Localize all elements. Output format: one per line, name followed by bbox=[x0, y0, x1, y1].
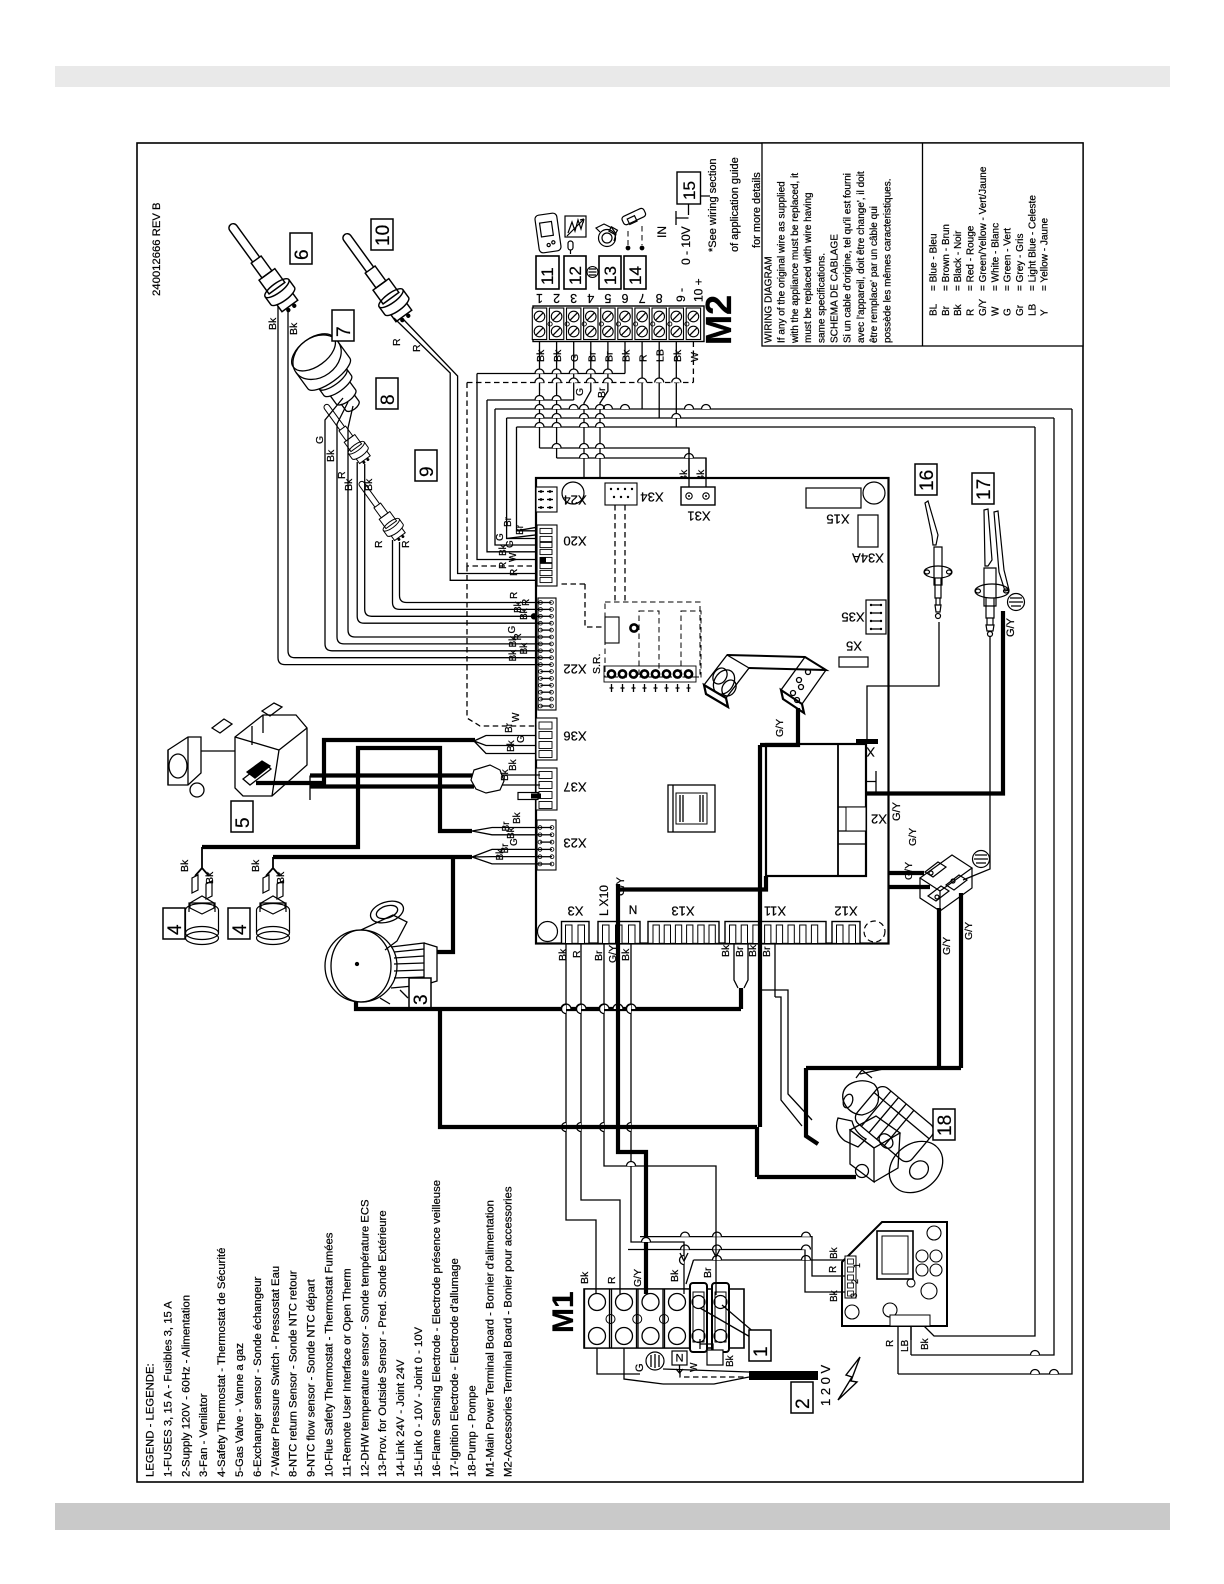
svg-text:Bk: Bk bbox=[250, 859, 262, 872]
box 10 bbox=[371, 219, 393, 250]
box 2 bbox=[791, 1382, 813, 1413]
svg-text:Bk: Bk bbox=[620, 948, 632, 961]
svg-text:18: 18 bbox=[935, 1115, 956, 1136]
svg-text:Bk: Bk bbox=[829, 1289, 840, 1302]
svg-text:1: 1 bbox=[536, 291, 543, 305]
right column wire to ignition board LB bbox=[911, 418, 1054, 1355]
svg-text:17-Ignition Electrode - Electr: 17-Ignition Electrode - Electrode d'allu… bbox=[449, 1258, 461, 1477]
svg-text:Bk: Bk bbox=[720, 944, 732, 957]
sensor 6 wires Bk Bk bbox=[288, 308, 541, 658]
svg-text:= Yellow - Jaune: = Yellow - Jaune bbox=[1040, 217, 1051, 291]
mounting hole top-right bbox=[863, 482, 885, 504]
svg-text:1: 1 bbox=[751, 1346, 772, 1357]
connector X15 bbox=[806, 488, 861, 508]
small relay box bbox=[605, 617, 619, 643]
svg-text:7: 7 bbox=[639, 291, 646, 305]
funnel marks bbox=[680, 1249, 720, 1261]
mounting hole top-left bbox=[562, 482, 584, 504]
svg-text:Bk: Bk bbox=[669, 1269, 681, 1282]
svg-text:Bk: Bk bbox=[325, 449, 337, 462]
svg-text:Bk: Bk bbox=[204, 871, 216, 884]
svg-text:Gr: Gr bbox=[1015, 304, 1026, 316]
svg-text:of application guide: of application guide bbox=[729, 157, 741, 252]
svg-text:= Brown - Brun: = Brown - Brun bbox=[941, 224, 952, 291]
box 4 (first) bbox=[163, 908, 185, 939]
svg-text:5-Gas Valve - Vanne a gaz: 5-Gas Valve - Vanne a gaz bbox=[234, 1343, 246, 1477]
svg-text:4: 4 bbox=[165, 924, 186, 935]
bottom grey bar bbox=[55, 1503, 1170, 1530]
box 4 (second) bbox=[228, 908, 250, 939]
S.R. pin header circles bbox=[604, 666, 696, 682]
svg-text:G/Y: G/Y bbox=[607, 945, 619, 963]
top grey bar bbox=[55, 66, 1170, 87]
board display bbox=[877, 1231, 913, 1279]
M1 earth G + symbol bbox=[597, 1348, 640, 1374]
connector X34A bbox=[858, 515, 878, 547]
svg-text:R: R bbox=[336, 471, 348, 479]
mounting hole bottom-right (dashed) bbox=[864, 921, 885, 942]
sensor 7 wires G Bk R bbox=[325, 398, 541, 651]
bundle line L6 (to right column Bk) bbox=[517, 426, 1036, 428]
svg-text:M1-Main Power Terminal Board -: M1-Main Power Terminal Board - Bornier d… bbox=[485, 1200, 497, 1477]
accessories terminal board M2 bbox=[532, 306, 704, 342]
svg-text:Bk: Bk bbox=[535, 349, 547, 362]
svg-text:Y: Y bbox=[1040, 309, 1051, 316]
svg-text:W: W bbox=[990, 306, 1001, 316]
svg-text:LB: LB bbox=[655, 349, 667, 362]
cluster earth wires down to pump bbox=[937, 908, 941, 1068]
svg-text:G: G bbox=[516, 735, 527, 743]
board buttons bbox=[916, 1250, 928, 1262]
svg-text:R: R bbox=[638, 354, 650, 362]
board pin strip bbox=[845, 1256, 856, 1298]
svg-text:9: 9 bbox=[417, 466, 438, 477]
thick jumpers into cluster bbox=[888, 871, 924, 875]
svg-text:X34: X34 bbox=[640, 490, 663, 505]
X37 blank plug bbox=[518, 793, 538, 800]
svg-text:Bk: Bk bbox=[500, 768, 511, 781]
svg-text:Bk: Bk bbox=[519, 607, 530, 620]
svg-text:G/Y: G/Y bbox=[1005, 617, 1017, 637]
bundle line L4 (to right column R) bbox=[495, 408, 1072, 410]
svg-text:Br: Br bbox=[761, 946, 773, 957]
svg-text:1-FUSES 3, 15 A - Fusibles 3,: 1-FUSES 3, 15 A - Fusibles 3, 15 A bbox=[162, 1301, 174, 1477]
svg-text:X36: X36 bbox=[563, 729, 586, 744]
svg-text:X2: X2 bbox=[871, 812, 887, 827]
svg-text:G/Y: G/Y bbox=[941, 937, 953, 955]
box 9 bbox=[415, 450, 437, 481]
V arrow bbox=[676, 1365, 683, 1373]
svg-text:R: R bbox=[373, 540, 385, 548]
svg-text:= Red - Rouge: = Red - Rouge bbox=[966, 225, 977, 291]
bundle line L2 dashed bbox=[467, 382, 693, 384]
bundle line L5 (to right column LB) bbox=[507, 417, 1054, 419]
svg-text:L X10: L X10 bbox=[597, 885, 611, 916]
box 18 bbox=[933, 1109, 955, 1140]
info box english/french text bbox=[764, 171, 894, 344]
svg-text:S.R.: S.R. bbox=[591, 654, 603, 674]
svg-text:R: R bbox=[498, 562, 509, 569]
box 14 bbox=[624, 256, 646, 289]
svg-text:X13: X13 bbox=[671, 904, 694, 919]
water pressure switch 7 bbox=[284, 326, 375, 425]
X22 black dot pin bbox=[531, 613, 537, 619]
svg-text:X35: X35 bbox=[841, 610, 864, 625]
svg-text:G/Y: G/Y bbox=[891, 801, 903, 821]
svg-text:G/Y: G/Y bbox=[632, 1269, 644, 1287]
svg-text:Br: Br bbox=[515, 524, 526, 535]
svg-text:same specifications.: same specifications. bbox=[816, 253, 827, 343]
svg-text:for more details: for more details bbox=[751, 172, 763, 248]
wiring diagram info box bbox=[762, 143, 1083, 346]
bundle line L3 bbox=[487, 399, 574, 401]
svg-text:8: 8 bbox=[378, 394, 399, 405]
ignition board 1 outline bbox=[842, 1222, 947, 1326]
svg-text:X31: X31 bbox=[687, 509, 710, 524]
Bk box bbox=[707, 1350, 723, 1365]
svg-text:R: R bbox=[400, 540, 412, 548]
svg-text:11: 11 bbox=[538, 267, 557, 285]
svg-text:10: 10 bbox=[373, 225, 394, 246]
NTC return sensor 8 bbox=[317, 399, 374, 467]
svg-text:G/Y: G/Y bbox=[907, 828, 919, 846]
svg-text:Bk: Bk bbox=[506, 739, 517, 752]
box 11 bbox=[536, 256, 559, 289]
svg-text:G/Y: G/Y bbox=[978, 298, 989, 316]
svg-text:0 - 10V: 0 - 10V bbox=[679, 226, 693, 265]
bundle line L8 to X31 bbox=[557, 458, 706, 487]
svg-text:X11: X11 bbox=[764, 904, 786, 919]
svg-text:X34A: X34A bbox=[852, 551, 884, 566]
svg-text:2: 2 bbox=[793, 1398, 814, 1409]
X11 wire pair to fan feed bbox=[734, 943, 748, 988]
room thermostat icon (12) bbox=[565, 216, 586, 254]
svg-text:with the appliance must be rep: with the appliance must be replaced, it bbox=[790, 173, 801, 344]
svg-text:9 -: 9 - bbox=[674, 288, 688, 302]
svg-text:G: G bbox=[574, 388, 586, 396]
svg-text:14: 14 bbox=[626, 266, 645, 285]
electrode 17 wire bbox=[963, 637, 990, 880]
svg-text:N: N bbox=[675, 1351, 683, 1363]
svg-text:3-Fan - Venilator: 3-Fan - Venilator bbox=[198, 1393, 210, 1477]
svg-text:R: R bbox=[606, 1276, 618, 1284]
svg-text:Bk: Bk bbox=[508, 649, 519, 662]
svg-text:4: 4 bbox=[587, 291, 594, 305]
svg-text:X3: X3 bbox=[568, 904, 584, 919]
S.R. jumper circle bbox=[630, 624, 637, 631]
svg-text:= Green - Vert: = Green - Vert bbox=[1003, 228, 1014, 291]
legend text block bbox=[145, 1180, 515, 1477]
svg-text:16-Flame Sensing Electrode - E: 16-Flame Sensing Electrode - Electrode p… bbox=[431, 1180, 443, 1477]
pump 18 bbox=[837, 1068, 953, 1203]
svg-text:13: 13 bbox=[601, 266, 620, 285]
connector X37 bbox=[536, 768, 557, 810]
bundle line L1 bbox=[477, 373, 625, 375]
svg-text:Br: Br bbox=[603, 351, 615, 362]
X11 wire pair to pump bbox=[761, 943, 775, 997]
pump thick feed top bbox=[806, 1068, 961, 1144]
svg-text:R: R bbox=[966, 309, 977, 316]
svg-text:5: 5 bbox=[233, 817, 254, 828]
svg-text:X20: X20 bbox=[563, 534, 586, 549]
svg-text:X24: X24 bbox=[563, 493, 586, 508]
flue safety thermostat 10 bbox=[333, 226, 418, 328]
ignition electrode 17 bbox=[975, 509, 1009, 637]
svg-text:Br: Br bbox=[596, 387, 608, 398]
svg-text:240012666 REV B: 240012666 REV B bbox=[151, 202, 163, 296]
svg-text:Bk: Bk bbox=[512, 811, 523, 824]
svg-text:LB: LB bbox=[900, 1339, 911, 1352]
svg-text:9-NTC flow sensor - Sonde NTC: 9-NTC flow sensor - Sonde NTC départ bbox=[306, 1278, 318, 1477]
flame sensing electrode 16 bbox=[924, 501, 952, 619]
bracket G/Y drop bbox=[758, 745, 762, 1127]
svg-text:*See wiring section: *See wiring section bbox=[707, 158, 719, 252]
drawing border frame bbox=[137, 143, 1083, 1482]
X36 dashed entry W bbox=[467, 566, 536, 726]
svg-text:être remplace' par un câble qu: être remplace' par un câble qui bbox=[869, 206, 880, 343]
connector X20 bbox=[537, 525, 557, 586]
svg-text:3: 3 bbox=[570, 291, 577, 305]
svg-text:1: 1 bbox=[852, 1263, 862, 1268]
connector X3 bbox=[562, 922, 590, 944]
connector X34 bbox=[605, 483, 637, 505]
exchanger sensor 6 bbox=[219, 216, 304, 318]
pump thick feed bottom bbox=[757, 1175, 856, 1179]
safety thermostat 4 (first) bbox=[186, 875, 219, 945]
svg-text:G: G bbox=[634, 1363, 646, 1372]
right column wire to ignition board Bk bbox=[924, 427, 1035, 1336]
svg-text:= Green/Yellow - Vert/Jaune: = Green/Yellow - Vert/Jaune bbox=[978, 166, 989, 291]
connector X36 bbox=[536, 718, 557, 760]
svg-text:G: G bbox=[507, 626, 518, 634]
svg-text:Si un cable d'origine, tel qu': Si un cable d'origine, tel qu'il est fou… bbox=[843, 173, 854, 343]
svg-text:Bk: Bk bbox=[519, 642, 530, 655]
svg-text:LEGEND - LEGENDE:: LEGEND - LEGENDE: bbox=[145, 1363, 157, 1477]
svg-text:7-Water Pressure Switch - Pres: 7-Water Pressure Switch - Pressostat Eau bbox=[270, 1266, 282, 1477]
lightning bolt bbox=[838, 1357, 860, 1400]
svg-text:R: R bbox=[411, 344, 423, 352]
svg-text:12: 12 bbox=[566, 266, 585, 285]
svg-text:Bk: Bk bbox=[552, 349, 564, 362]
svg-text:G: G bbox=[569, 354, 581, 362]
fan 3 bbox=[325, 897, 437, 1004]
svg-text:possède les mêmes caracteristi: possède les mêmes caracteristiques. bbox=[882, 178, 893, 343]
transformer icon bbox=[668, 785, 715, 832]
svg-text:6: 6 bbox=[292, 249, 313, 260]
svg-text:X37: X37 bbox=[563, 780, 586, 795]
svg-text:18-Pump - Pompe: 18-Pump - Pompe bbox=[467, 1385, 479, 1477]
svg-text:Bk: Bk bbox=[508, 635, 519, 648]
svg-text:Bk: Bk bbox=[621, 349, 633, 362]
bracket isometric bbox=[704, 655, 826, 713]
svg-text:Bk: Bk bbox=[672, 349, 684, 362]
bowtie junction bbox=[471, 765, 504, 793]
fuse leaders to box 1 bbox=[700, 1305, 756, 1338]
svg-text:M2-Accessories Terminal Board: M2-Accessories Terminal Board - Bonier p… bbox=[503, 1186, 515, 1477]
svg-text:2: 2 bbox=[553, 291, 560, 305]
svg-text:N: N bbox=[629, 902, 638, 916]
connector X11 bbox=[725, 922, 826, 944]
earth screw symbol at cluster bbox=[973, 851, 990, 868]
box 17 bbox=[972, 473, 994, 504]
X1 pad bbox=[856, 739, 878, 744]
svg-text:R: R bbox=[571, 950, 583, 958]
earth screw icon between 12 and 13 bbox=[587, 267, 598, 278]
svg-text:8-NTC return Sensor - Sonde NT: 8-NTC return Sensor - Sonde NTC retour bbox=[288, 1270, 300, 1477]
tiny pin labels under S.R. bbox=[610, 684, 614, 692]
link 15 leader bbox=[676, 196, 710, 225]
X2 earth strap to ignition electrode bbox=[866, 611, 1003, 794]
remote control icon (11) bbox=[534, 213, 561, 254]
svg-text:G/Y: G/Y bbox=[774, 719, 786, 737]
box 7 bbox=[332, 310, 354, 341]
M1 input wire Bk (N) bbox=[631, 943, 684, 1294]
svg-text:11-Remote User Interface or Op: 11-Remote User Interface or Open Therm bbox=[341, 1268, 353, 1477]
svg-text:W: W bbox=[511, 712, 522, 722]
svg-text:4-Safety Thermostat - Thermost: 4-Safety Thermostat - Thermostat de Sécu… bbox=[216, 1248, 228, 1477]
svg-text:X5: X5 bbox=[846, 639, 862, 654]
connector X22 bbox=[538, 598, 556, 710]
svg-text:Bk: Bk bbox=[495, 848, 506, 861]
outdoor sensor icon (13) bbox=[596, 224, 617, 247]
svg-text:1 2 0 V: 1 2 0 V bbox=[818, 1364, 833, 1406]
svg-text:4: 4 bbox=[230, 924, 251, 935]
svg-text:14-Link 24V - Joint 24V: 14-Link 24V - Joint 24V bbox=[395, 1359, 407, 1477]
main control board PCB bbox=[536, 478, 889, 944]
main power terminal board M1 bbox=[584, 1289, 744, 1348]
thick riser to earth bracket bbox=[755, 1127, 759, 1177]
gas valve 5 bbox=[168, 703, 307, 797]
svg-text:SCHEMA DE CABLAGE: SCHEMA DE CABLAGE bbox=[830, 234, 841, 343]
svg-text:Br: Br bbox=[504, 722, 515, 733]
svg-text:X12: X12 bbox=[834, 904, 857, 919]
svg-text:Bk: Bk bbox=[275, 871, 287, 884]
svg-text:X22: X22 bbox=[563, 662, 586, 677]
M1 input wire R bbox=[581, 943, 620, 1294]
svg-text:10 +: 10 + bbox=[692, 278, 706, 302]
bracket to X1 thick bbox=[760, 708, 798, 745]
svg-text:R: R bbox=[509, 592, 520, 599]
M2 terminal numbers 1-8 bbox=[536, 291, 663, 305]
dashed links from X34 bbox=[615, 505, 625, 602]
svg-text:Br: Br bbox=[941, 305, 952, 316]
mounting hole bottom-left bbox=[538, 922, 558, 942]
svg-text:Bk: Bk bbox=[725, 1354, 736, 1367]
svg-text:2-Supply 120V - 60Hz - Aliment: 2-Supply 120V - 60Hz - Alimentation bbox=[180, 1295, 192, 1477]
svg-text:Br: Br bbox=[734, 946, 746, 957]
connector X10 L-N bbox=[598, 922, 640, 944]
svg-text:12-DHW temperature sensor - So: 12-DHW temperature sensor - Sonde tempér… bbox=[359, 1199, 371, 1477]
svg-text:Bk: Bk bbox=[508, 758, 519, 771]
svg-text:5: 5 bbox=[604, 291, 611, 305]
svg-text:G: G bbox=[495, 533, 506, 541]
connector X12 bbox=[832, 922, 860, 944]
svg-text:Bk: Bk bbox=[506, 826, 517, 839]
right column wire to ignition board R bbox=[898, 409, 1072, 1374]
svg-text:= Light Blue - Celeste: = Light Blue - Celeste bbox=[1027, 195, 1038, 291]
svg-text:10-Flue Safety Thermostat - Th: 10-Flue Safety Thermostat - Thermostat F… bbox=[324, 1232, 336, 1477]
thermostat 1 wires bbox=[0, 0, 1, 1]
svg-text:IN: IN bbox=[655, 226, 669, 238]
svg-text:LB: LB bbox=[1027, 303, 1038, 316]
sensor 9 wires R R bbox=[393, 540, 541, 609]
svg-text:M1: M1 bbox=[547, 1291, 580, 1333]
svg-text:15-Link 0 - 10V - Joint 0 - 10: 15-Link 0 - 10V - Joint 0 - 10V bbox=[413, 1326, 425, 1477]
cord gather triangle bbox=[663, 1369, 749, 1384]
svg-text:Bk: Bk bbox=[953, 303, 964, 316]
svg-text:= Grey - Gris: = Grey - Gris bbox=[1015, 233, 1026, 291]
svg-text:G: G bbox=[1003, 308, 1014, 316]
svg-text:3: 3 bbox=[411, 994, 432, 1005]
svg-text:= Blue - Bleu: = Blue - Bleu bbox=[929, 233, 940, 291]
info box divider bbox=[922, 143, 924, 346]
earth screw symbol at electrode 17 bbox=[1008, 594, 1025, 611]
thermostat 2 wires bbox=[266, 857, 280, 876]
X2 pad bbox=[846, 779, 866, 784]
svg-text:W: W bbox=[508, 552, 519, 562]
svg-text:Bk: Bk bbox=[267, 317, 279, 330]
earth terminal cluster bbox=[920, 855, 972, 911]
M2 wire colour labels bbox=[535, 349, 701, 362]
safety thermostat 4 (second) bbox=[257, 875, 290, 945]
connector X31 bbox=[681, 487, 715, 505]
X37 junction wires bbox=[310, 773, 474, 777]
svg-text:R: R bbox=[885, 1340, 896, 1347]
info box colour code list bbox=[929, 166, 1051, 316]
box 15 bbox=[677, 172, 701, 204]
fuse holder 1 bbox=[690, 1283, 707, 1352]
box 12 bbox=[564, 256, 586, 289]
svg-text:Bk: Bk bbox=[747, 944, 759, 957]
N box bbox=[672, 1351, 687, 1365]
svg-text:Bk: Bk bbox=[920, 1337, 931, 1350]
board output pads bbox=[890, 1315, 930, 1326]
svg-text:17: 17 bbox=[974, 479, 995, 500]
bundle left drops to X20 bbox=[477, 374, 536, 560]
crossing hops lower area bbox=[562, 1005, 632, 1132]
sensor 10 wires R R bbox=[394, 318, 536, 580]
Bk stubs above X31 bbox=[689, 448, 706, 487]
svg-text:If any of the original wire as: If any of the original wire as supplied bbox=[777, 181, 788, 343]
sensor 8 wires Bk Bk bbox=[357, 462, 540, 623]
svg-text:Bk: Bk bbox=[179, 859, 191, 872]
svg-text:Bk: Bk bbox=[288, 322, 300, 335]
svg-text:R: R bbox=[828, 1266, 839, 1273]
svg-text:2: 2 bbox=[850, 1279, 860, 1284]
box 5 bbox=[231, 801, 253, 832]
connector X5 bbox=[839, 657, 868, 667]
M1 input wire G/Y thick bbox=[618, 884, 646, 1294]
svg-text:Bk: Bk bbox=[557, 948, 569, 961]
svg-text:= White - Blanc: = White - Blanc bbox=[990, 223, 1001, 291]
box 16 bbox=[915, 464, 937, 495]
svg-text:R: R bbox=[391, 338, 403, 346]
svg-text:R: R bbox=[509, 569, 520, 576]
svg-text:6: 6 bbox=[621, 291, 628, 305]
svg-text:G: G bbox=[314, 436, 326, 444]
svg-text:Br: Br bbox=[593, 950, 605, 961]
fuse 2 feed Br bbox=[604, 943, 716, 1295]
dashed sub box 1 bbox=[639, 611, 659, 677]
fuse holder 2 bbox=[712, 1283, 729, 1352]
svg-text:avec l'appareil, doit être cha: avec l'appareil, doit être change', il d… bbox=[856, 171, 867, 343]
svg-text:WIRING DIAGRAM: WIRING DIAGRAM bbox=[764, 256, 775, 343]
link jumper icon (14) bbox=[621, 207, 647, 249]
connector X24 bbox=[536, 487, 557, 512]
svg-text:X15: X15 bbox=[826, 512, 849, 527]
connector X13 bbox=[648, 922, 719, 944]
power cord thick bar bbox=[749, 1371, 818, 1380]
